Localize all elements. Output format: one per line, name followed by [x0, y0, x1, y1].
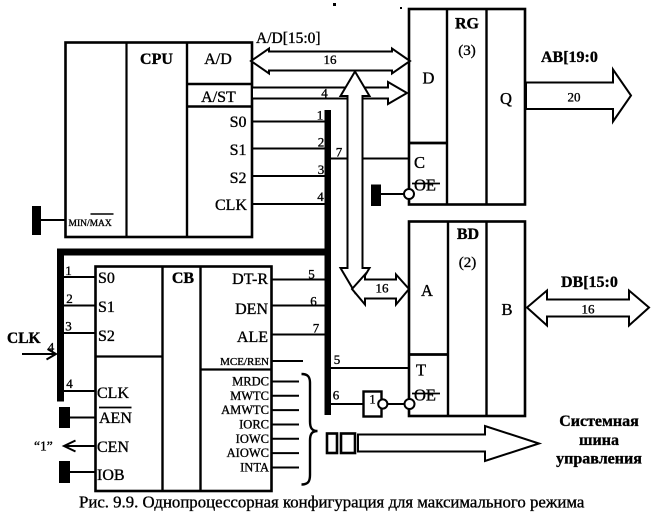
svg-text:Q: Q — [500, 89, 512, 108]
block CB — [96, 267, 272, 492]
overline MAX — [91, 213, 114, 215]
divider CPU A/ST box top — [187, 83, 252, 86]
svg-text:CLK: CLK — [97, 385, 129, 402]
svg-text:DT-R: DT-R — [232, 271, 268, 288]
wire S0 CPU to status bus — [252, 121, 326, 123]
svg-text:3: 3 — [65, 319, 72, 334]
svg-text:T: T — [416, 361, 426, 380]
svg-text:2: 2 — [318, 135, 325, 150]
wire MIN/MAX to CPU — [40, 219, 66, 221]
bus thick horizontal status bus — [57, 249, 331, 256]
svg-text:IOB: IOB — [97, 467, 125, 484]
wire DEN CB to bus — [271, 305, 326, 307]
wire RG OE tick to bubble — [380, 193, 404, 195]
svg-text:MCE/REN: MCE/REN — [220, 356, 269, 368]
svg-text:7: 7 — [313, 321, 320, 336]
divider RG col2 — [485, 9, 487, 205]
speck top 1 — [333, 3, 336, 6]
wire AIOWC stub — [271, 452, 299, 454]
divider CB col1 — [161, 267, 163, 492]
svg-text:“1”: “1” — [34, 439, 53, 454]
svg-text:MRDC: MRDC — [232, 375, 269, 389]
svg-text:3: 3 — [318, 162, 325, 177]
svg-text:AEN: AEN — [99, 410, 132, 427]
svg-text:MIN/MAX: MIN/MAX — [69, 219, 112, 229]
bus arrow AB out — [526, 70, 631, 122]
svg-text:4: 4 — [48, 340, 55, 355]
wire CLK bus to CB — [62, 390, 96, 392]
speck top 2 — [400, 7, 402, 9]
svg-text:OE: OE — [414, 176, 436, 195]
svg-text:INTA: INTA — [240, 461, 269, 475]
svg-text:A/ST: A/ST — [201, 89, 236, 106]
svg-text:CEN: CEN — [97, 439, 129, 456]
svg-text:6: 6 — [333, 388, 340, 403]
svg-text:6: 6 — [310, 294, 317, 309]
bus arrow DB double — [527, 291, 649, 326]
svg-text:5: 5 — [308, 267, 315, 282]
svg-text:2: 2 — [66, 291, 73, 306]
svg-text:DEN: DEN — [235, 301, 268, 318]
svg-text:4: 4 — [66, 376, 73, 391]
bubble BD OE input — [405, 399, 415, 409]
wire S0 bus to CB — [62, 276, 96, 278]
wire S2 bus to CB — [62, 332, 96, 334]
svg-text:IORC: IORC — [239, 418, 269, 432]
svg-text:S1: S1 — [98, 299, 115, 316]
wire ALE CB to bus — [271, 334, 326, 336]
svg-text:MWTC: MWTC — [230, 389, 269, 403]
svg-text:A/D[15:0]: A/D[15:0] — [256, 30, 321, 47]
svg-text:Рис. 9.9. Однопроцессорная кон: Рис. 9.9. Однопроцессорная конфигурация … — [79, 493, 585, 512]
bus arrow system control — [358, 426, 539, 461]
bus arrow A/ST to D — [252, 82, 407, 104]
svg-text:AMWTC: AMWTC — [221, 403, 269, 417]
divider RG C box top — [409, 142, 447, 145]
bubble inverter output — [378, 399, 387, 408]
divider BD col2 — [485, 222, 487, 417]
svg-text:Системная: Системная — [559, 413, 639, 430]
svg-text:S2: S2 — [230, 170, 247, 187]
svg-text:1: 1 — [317, 108, 324, 123]
divider CB col2 — [199, 267, 201, 492]
svg-text:шина: шина — [579, 432, 619, 449]
wire S1 bus to CB — [62, 305, 96, 307]
svg-text:S1: S1 — [230, 142, 247, 159]
wire CLK CPU to status bus — [252, 203, 326, 205]
wire INTA stub — [271, 467, 299, 469]
wire 7 bus to RG C input — [330, 158, 409, 160]
svg-text:IOWC: IOWC — [236, 432, 269, 446]
svg-text:16: 16 — [376, 281, 390, 296]
divider CPU A/ST box bottom — [187, 105, 252, 108]
svg-text:ALE: ALE — [237, 329, 268, 346]
divider CB right section — [201, 368, 272, 370]
wire IOWC stub — [271, 438, 299, 440]
svg-text:1: 1 — [65, 263, 72, 278]
strike OE RG — [412, 183, 440, 185]
divider CPU col2 — [186, 43, 188, 238]
wire inverter to BD OE — [388, 403, 405, 405]
bus arrow A/D 16 double — [251, 49, 410, 74]
arrowhead CEN left open V — [64, 441, 76, 452]
tick AEN strap — [59, 407, 70, 428]
svg-text:A: A — [421, 281, 433, 300]
svg-text:AIOWC: AIOWC — [227, 446, 269, 460]
wire MCE/REN stub — [271, 360, 303, 362]
wire MWTC stub — [271, 395, 299, 397]
tick RG OE strap — [371, 185, 381, 207]
divider CB left section — [96, 355, 163, 357]
bus thick left vertical — [57, 249, 64, 402]
svg-text:S2: S2 — [98, 328, 115, 345]
svg-text:AB[19:0: AB[19:0 — [541, 49, 598, 66]
overline AEN — [99, 407, 132, 409]
bus arrow 16 to BD A — [352, 275, 409, 305]
wire IORC stub — [271, 424, 299, 426]
box segment 2 system bus — [341, 434, 355, 454]
arrowhead CLK external open V — [47, 349, 57, 360]
svg-text:DB[15:0: DB[15:0 — [561, 274, 618, 291]
svg-text:A/D: A/D — [204, 51, 232, 68]
block CPU — [66, 43, 253, 238]
brace control signals — [302, 374, 318, 485]
wire AEN tick to CB — [69, 417, 96, 419]
svg-text:B: B — [501, 300, 512, 319]
svg-text:(2): (2) — [459, 255, 477, 271]
tick MIN/MAX strap — [32, 206, 41, 235]
block RG — [409, 9, 525, 205]
svg-text:BD: BD — [457, 226, 479, 243]
svg-text:16: 16 — [582, 302, 596, 317]
svg-text:OE: OE — [414, 386, 436, 405]
svg-text:1: 1 — [369, 393, 375, 407]
wire 6 bus to inverter — [330, 403, 364, 405]
svg-text:CPU: CPU — [140, 51, 173, 68]
divider CPU col1 — [125, 43, 127, 238]
inverter U1 — [364, 392, 382, 417]
wire IOB tick to CB — [69, 471, 96, 473]
divider BD T box top — [409, 353, 448, 356]
bus arrow vertical AD — [341, 72, 370, 293]
svg-text:S0: S0 — [98, 270, 115, 287]
divider BD col1 — [447, 222, 449, 417]
bus thick right vertical — [325, 110, 332, 415]
block BD — [409, 222, 525, 417]
bubble RG OE input — [404, 189, 414, 199]
svg-text:C: C — [414, 153, 425, 172]
wire S1 CPU to status bus — [252, 148, 326, 150]
svg-text:(3): (3) — [458, 43, 476, 59]
wire CLK external into bus — [22, 353, 56, 355]
svg-text:RG: RG — [455, 16, 480, 33]
svg-text:CLK: CLK — [215, 197, 247, 214]
svg-text:CB: CB — [172, 270, 195, 287]
svg-text:CLK: CLK — [7, 330, 41, 347]
tick IOB strap — [59, 461, 70, 483]
svg-text:16: 16 — [324, 52, 338, 67]
wire 5 bus to BD T input — [330, 367, 409, 369]
divider RG col1 — [446, 9, 448, 205]
svg-text:4: 4 — [321, 86, 328, 101]
wire AMWTC stub — [271, 409, 299, 411]
svg-text:7: 7 — [336, 145, 343, 160]
box segment 1 system bus — [327, 434, 337, 454]
svg-text:D: D — [423, 69, 435, 88]
svg-text:20: 20 — [568, 90, 581, 105]
svg-text:5: 5 — [334, 352, 341, 367]
wire S2 CPU to status bus — [252, 175, 326, 177]
wire CEN arrow out — [64, 445, 96, 447]
wire MRDC stub — [271, 381, 299, 383]
svg-text:S0: S0 — [230, 114, 247, 131]
svg-text:управления: управления — [556, 451, 642, 468]
strike OE BD — [412, 393, 440, 395]
wire DT-R CB to bus — [271, 279, 326, 281]
svg-text:4: 4 — [317, 189, 324, 204]
